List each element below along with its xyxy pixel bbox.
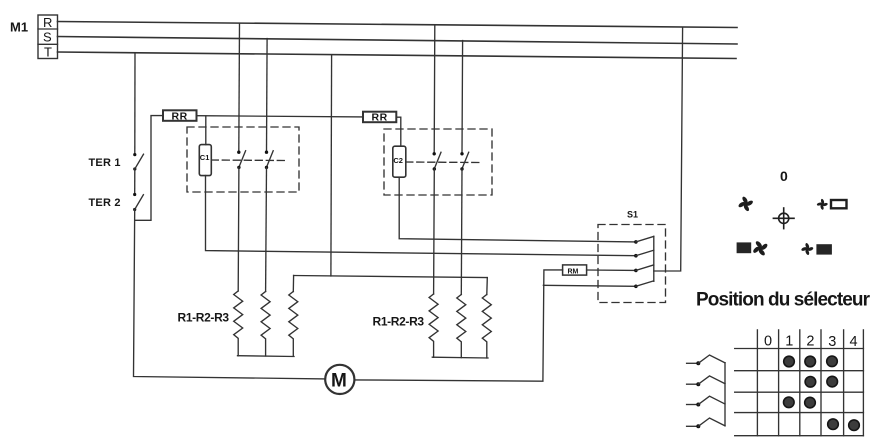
- table grid verticals: [757, 330, 863, 436]
- wire RR1 branch to TER chain: [135, 116, 163, 221]
- table grid horizontals: [735, 349, 864, 436]
- heater icon bottom-left filled: [737, 242, 752, 253]
- mechanical link C1: [211, 159, 286, 162]
- wire RR1 to RR2: [197, 116, 364, 117]
- S1 contact 2: [634, 250, 654, 257]
- svg-text:4: 4: [850, 334, 858, 350]
- svg-text:C2: C2: [393, 156, 403, 165]
- resistor bank1 R3: [289, 292, 298, 357]
- wire TER2 down to motor line: [134, 210, 326, 379]
- fan icon top-right small: [815, 197, 830, 212]
- wire RM to S1 contact 3: [587, 269, 636, 271]
- S1 common bar: [653, 236, 655, 281]
- wire bank1 R3 top leg: [292, 276, 294, 292]
- contactor C2 dashed enclosure: [384, 129, 492, 195]
- wire S1 common to R bus: [654, 27, 683, 271]
- contact C2b: [460, 41, 468, 295]
- svg-text:RM: RM: [568, 268, 579, 275]
- svg-text:C1: C1: [200, 153, 210, 162]
- switch TER2: [133, 193, 143, 211]
- wire C1 coil to S1 contact 2: [206, 176, 636, 256]
- resistor RM: [563, 265, 587, 275]
- contactor C1 dashed enclosure: [187, 127, 299, 192]
- svg-text:3: 3: [828, 334, 836, 350]
- S1 contact 4: [634, 281, 654, 288]
- bus R: [58, 22, 738, 28]
- fan icon top-left: [736, 195, 755, 214]
- S1 contact 1: [634, 236, 654, 243]
- wire C2 coil to S1 contact 1: [399, 177, 636, 242]
- terminal box R-S-T: [38, 15, 58, 60]
- selector S1 dashed enclosure: [598, 225, 666, 303]
- wire TER1 to TER2: [134, 169, 136, 195]
- resistor RR2: [363, 112, 396, 124]
- svg-text:R: R: [43, 15, 52, 30]
- svg-text:RR: RR: [372, 112, 388, 124]
- wire T bus to TER1: [134, 53, 136, 154]
- svg-text:R1-R2-R3: R1-R2-R3: [178, 311, 230, 325]
- svg-text:S1: S1: [627, 210, 638, 220]
- wire bank1 bottom bar: [238, 355, 295, 358]
- svg-text:T: T: [44, 45, 52, 60]
- wire riser to S1 contact 4: [543, 285, 636, 286]
- fan icon bottom-left: [752, 240, 769, 257]
- svg-text:RR: RR: [172, 110, 188, 122]
- contact C2a: [433, 25, 442, 294]
- svg-text:Position du sélecteur: Position du sélecteur: [696, 290, 871, 311]
- bus T: [58, 52, 737, 59]
- selector crosshair: [773, 208, 794, 229]
- svg-text:M1: M1: [10, 20, 28, 35]
- svg-text:S: S: [43, 30, 52, 45]
- wire RR2 to C2 coil: [396, 117, 401, 146]
- wire T bus drop x331: [330, 55, 333, 276]
- S1 contact 3: [634, 265, 654, 272]
- svg-text:R1-R2-R3: R1-R2-R3: [373, 315, 425, 329]
- cam switch 3: [687, 396, 725, 406]
- wire bank2 bottom bar: [432, 356, 488, 359]
- svg-text:0: 0: [780, 168, 788, 184]
- resistor bank2 R2: [457, 295, 466, 358]
- svg-text:2: 2: [806, 334, 814, 350]
- fan icon bottom-right small: [799, 241, 815, 257]
- mechanical link C2: [406, 161, 480, 164]
- svg-text:TER 2: TER 2: [89, 197, 121, 209]
- resistor RR1: [163, 110, 197, 122]
- bus S: [58, 37, 738, 45]
- resistor bank2 R3: [482, 295, 491, 358]
- cam switch common bar: [724, 363, 726, 426]
- table header digits: [764, 334, 858, 351]
- cam switch 4: [687, 418, 725, 428]
- svg-text:1: 1: [785, 334, 793, 350]
- resistor bank1 R1: [234, 291, 243, 356]
- contact C1b: [265, 39, 273, 292]
- table dots: [784, 356, 860, 431]
- cam switch 1: [687, 355, 725, 365]
- svg-text:M: M: [331, 371, 347, 392]
- svg-text:TER 1: TER 1: [89, 157, 121, 169]
- wire R3 feeder: [294, 276, 488, 278]
- coil C1: [199, 145, 211, 176]
- motor M: [325, 365, 354, 394]
- switch TER1: [133, 153, 143, 171]
- heater icon top-right outlined: [831, 200, 847, 208]
- resistor bank2 R1: [429, 294, 438, 357]
- contact C1a: [237, 23, 246, 291]
- wire drop to C1 coil: [205, 116, 207, 145]
- svg-text:0: 0: [764, 334, 772, 350]
- cam switch 2: [687, 376, 725, 386]
- heater icon bottom-right filled: [816, 244, 832, 254]
- wire motor to RM riser: [354, 270, 562, 381]
- coil C2: [393, 146, 406, 177]
- resistor bank1 R2: [261, 292, 270, 357]
- wire bank2 R3 top leg: [486, 278, 489, 295]
